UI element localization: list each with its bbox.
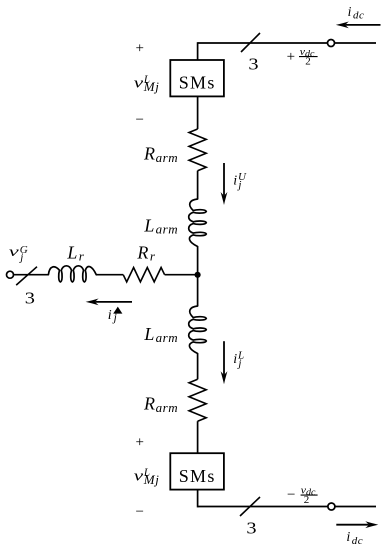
- svg-text:L: L: [143, 216, 154, 236]
- svg-text:dc: dc: [353, 10, 364, 22]
- svg-text:i: i: [108, 308, 112, 323]
- node junction dot: [195, 272, 201, 278]
- svg-text:i: i: [233, 174, 237, 189]
- label v_j^G: [9, 244, 28, 263]
- current arrow i_j^L (down): [223, 341, 225, 374]
- svg-text:R: R: [136, 242, 148, 262]
- svg-text:R: R: [143, 394, 155, 414]
- three-phase slash left: [16, 267, 37, 285]
- label i_dc bottom: [346, 530, 363, 547]
- three-phase slash top: [241, 33, 260, 52]
- svg-text:arm: arm: [156, 400, 179, 415]
- wire node to L_arm lower: [197, 275, 199, 306]
- resistor R_r: [123, 268, 164, 282]
- wire terminal to L_r: [13, 274, 48, 276]
- label v_Mj^L lower: [134, 467, 160, 488]
- three-phase slash bottom: [240, 497, 260, 516]
- inductor L_arm upper: [189, 199, 207, 247]
- wire R_arm to L_arm upper: [197, 171, 199, 199]
- wire L_arm upper to node: [197, 247, 199, 275]
- svg-text:3: 3: [248, 55, 258, 74]
- wire R_r to node: [165, 274, 198, 276]
- svg-text:v: v: [9, 244, 20, 260]
- svg-text:R: R: [143, 143, 155, 163]
- svg-text:dc: dc: [352, 535, 363, 547]
- svg-text:v: v: [134, 467, 144, 483]
- current arrow i_dc bottom (pointing right): [336, 524, 368, 526]
- current arrow i_dc top (pointing left): [346, 24, 381, 26]
- label R_arm upper: [143, 143, 178, 164]
- svg-text:L: L: [143, 324, 154, 344]
- label R_arm lower: [143, 394, 178, 415]
- svg-text:2: 2: [304, 494, 310, 506]
- svg-text:L: L: [66, 242, 77, 262]
- svg-text:−: −: [135, 112, 143, 128]
- svg-text:arm: arm: [156, 222, 179, 237]
- svg-text:r: r: [150, 249, 156, 264]
- wire L_arm lower to R_arm lower: [197, 354, 199, 380]
- label L_r: [66, 242, 84, 263]
- resistor R_arm lower: [189, 379, 206, 421]
- label i_j^L: [233, 350, 244, 370]
- svg-text:Mj: Mj: [143, 472, 160, 487]
- svg-text:SMs: SMs: [179, 466, 216, 486]
- svg-text:−: −: [135, 504, 143, 520]
- wire SMs to R_arm upper: [197, 96, 199, 129]
- svg-text:arm: arm: [156, 150, 179, 165]
- terminal dc+ (open circle): [328, 40, 335, 47]
- svg-text:i: i: [346, 530, 350, 545]
- label L_arm lower: [143, 324, 178, 345]
- resistor R_arm upper: [189, 129, 206, 171]
- wire top vertical into SMs box: [197, 42, 199, 60]
- wire R_arm lower to SMs lower: [197, 421, 199, 453]
- svg-text:j: j: [112, 312, 117, 324]
- label -vdc/2 bottom: [287, 485, 318, 506]
- svg-text:r: r: [79, 249, 85, 264]
- wire SMs lower down: [197, 490, 199, 508]
- svg-text:i: i: [348, 4, 352, 19]
- label L_arm upper: [143, 216, 178, 237]
- svg-text:arm: arm: [156, 330, 179, 345]
- label i_j^U: [233, 171, 247, 191]
- label i_dc top: [348, 4, 365, 22]
- svg-text:i: i: [233, 352, 237, 367]
- svg-text:SMs: SMs: [179, 73, 216, 93]
- label R_r: [136, 242, 156, 263]
- SM block L (box): [170, 453, 224, 489]
- label i_j^Delta: [108, 307, 123, 325]
- svg-text:v: v: [134, 74, 144, 90]
- svg-text:+: +: [287, 49, 295, 65]
- svg-text:−: −: [287, 487, 295, 503]
- inductor L_r: [48, 266, 96, 282]
- svg-text:3: 3: [246, 519, 256, 538]
- label +vdc/2 top: [287, 46, 318, 67]
- current arrow i_j^U (down): [223, 163, 225, 195]
- svg-text:3: 3: [25, 289, 35, 308]
- svg-text:+: +: [135, 434, 143, 450]
- svg-text:+: +: [135, 41, 143, 57]
- SM block U (box): [170, 60, 224, 96]
- wire bottom horizontal dc bus: [198, 506, 376, 508]
- terminal v_j^G (open circle): [7, 271, 14, 278]
- svg-text:2: 2: [305, 55, 311, 67]
- svg-text:Mj: Mj: [143, 79, 160, 94]
- terminal dc- (open circle): [328, 503, 335, 510]
- label v_Mj^L upper: [134, 73, 160, 94]
- wire top horizontal dc bus: [198, 42, 376, 44]
- wire L_r to R_r: [96, 274, 123, 276]
- current arrow i_j^Delta (pointing left): [95, 301, 132, 303]
- inductor L_arm lower: [189, 306, 207, 354]
